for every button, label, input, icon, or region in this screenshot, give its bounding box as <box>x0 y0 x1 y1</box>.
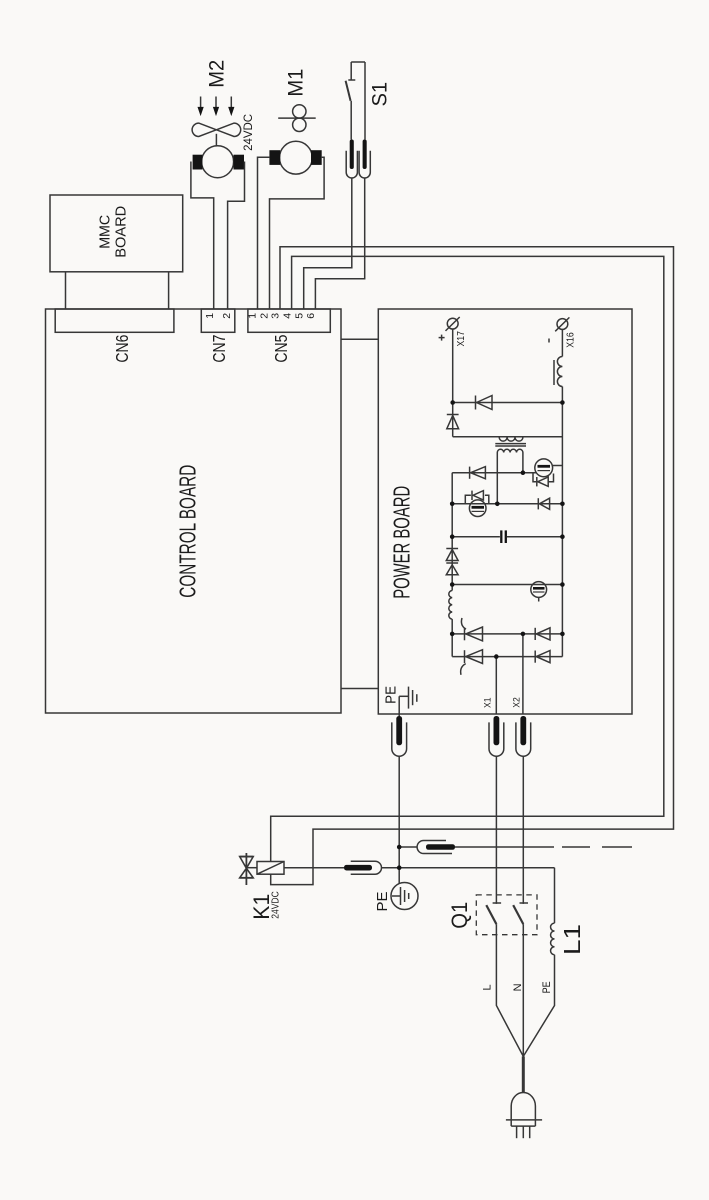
wire transformer primary legs <box>496 453 498 504</box>
wire mid rail <box>452 503 562 505</box>
transistor Q3 <box>531 582 547 598</box>
wire SCR rail <box>452 633 562 635</box>
diode D8 <box>534 651 536 663</box>
power board <box>378 309 632 714</box>
terminal pin X1 <box>494 716 500 745</box>
svg-text:M2: M2 <box>205 60 229 88</box>
connector CN5 <box>248 309 330 332</box>
svg-text:S1: S1 <box>367 82 391 107</box>
wire MMC to CN6 (2 legs) <box>65 272 67 309</box>
svg-text:MMC: MMC <box>96 215 113 249</box>
svg-text:POWER BOARD: POWER BOARD <box>388 486 414 599</box>
wire CN5 pin4 to K1 (upper) <box>271 256 664 861</box>
Q1 pole 2 <box>520 902 529 904</box>
terminal X16 <box>557 319 568 330</box>
diode D-q1 (parallel) <box>536 477 538 486</box>
junction node 1 (power board) <box>450 400 455 405</box>
junction node 4 (power board) <box>450 502 455 507</box>
svg-text:24VDC: 24VDC <box>243 114 255 151</box>
svg-text:CN7: CN7 <box>209 335 229 363</box>
faston connector (K1 wire) <box>344 865 372 871</box>
junction node 9 (power board) <box>450 582 455 587</box>
svg-text:X1: X1 <box>482 697 493 708</box>
junction node 2 (power board) <box>560 400 565 405</box>
control board <box>46 309 342 713</box>
wire CN5 pin3 to K1 (lower) <box>271 247 674 885</box>
svg-text:CN6: CN6 <box>112 335 132 363</box>
junction node 13 (power board) <box>560 632 565 637</box>
wire faston to L1 drop <box>382 867 555 869</box>
svg-text:M1: M1 <box>284 69 308 97</box>
transformer T1 <box>499 437 523 441</box>
junction node 7 (power board) <box>450 534 455 539</box>
inductor (X16 filter) <box>561 329 563 356</box>
svg-text:PE: PE <box>383 686 400 704</box>
svg-text:4: 4 <box>281 313 293 319</box>
diode D1 (top rail) <box>475 396 477 410</box>
wire control-power link bottom <box>341 688 378 690</box>
svg-text:CONTROL BOARD: CONTROL BOARD <box>174 465 200 598</box>
wire X1 drop <box>495 657 497 714</box>
diode D5 (left rail) <box>446 548 458 550</box>
svg-text:CN5: CN5 <box>271 335 291 363</box>
junction node 5 (power board) <box>495 502 500 507</box>
junction node 11 (power board) <box>450 632 455 637</box>
diode D4 (mid rail right) <box>537 498 539 509</box>
svg-text:L1: L1 <box>559 924 585 955</box>
faston connector (dashed lead) <box>399 846 417 848</box>
svg-text:L: L <box>481 984 493 990</box>
MMC board <box>50 195 183 272</box>
diode D2 (vertical under X17) <box>452 403 454 437</box>
svg-text:3: 3 <box>270 313 282 319</box>
wire bridge top rail <box>452 472 536 474</box>
diode D6 (left rail) <box>446 562 458 564</box>
svg-text:1: 1 <box>204 313 216 319</box>
breaker Q1 <box>476 895 537 935</box>
wire bottom rail <box>452 656 562 658</box>
inductor L1 <box>554 868 556 923</box>
thyristor SCR1 <box>464 628 466 641</box>
motor M2 <box>202 146 234 178</box>
inductor L (left rail) <box>449 591 452 620</box>
solenoid valve symbol <box>245 853 247 885</box>
wire top rail <box>453 402 563 404</box>
wire left rail <box>451 473 453 591</box>
junction node PE/lead <box>397 845 402 850</box>
terminal pin PE <box>396 716 402 745</box>
connector CN7 <box>201 309 235 332</box>
junction node 6 (power board) <box>560 502 565 507</box>
svg-text:24VDC: 24VDC <box>270 891 281 919</box>
Q1 pole 1 <box>493 902 502 904</box>
wire right rail <box>561 403 563 657</box>
motor M1 <box>280 141 313 174</box>
relay K1 <box>257 862 284 875</box>
wire control-power link top <box>341 338 378 340</box>
junction node 3 (power board) <box>521 470 526 475</box>
svg-text:X2: X2 <box>511 697 522 708</box>
svg-text:2: 2 <box>221 313 233 319</box>
wire + dashed lead <box>455 846 554 848</box>
diode D-q2 (parallel) <box>471 491 473 500</box>
wire S1 left to CN5 pin5 <box>304 178 352 309</box>
wire L <box>496 924 523 1056</box>
transistor Q1 (top right) <box>535 459 553 477</box>
wire capacitor rail <box>452 536 500 538</box>
svg-text:N: N <box>512 983 524 991</box>
diode D3 <box>469 467 471 479</box>
wire PE <box>523 955 554 1057</box>
wire S1 right to CN5 pin6 <box>315 178 364 309</box>
wire N <box>522 924 524 1056</box>
airflow arrows <box>200 97 202 109</box>
svg-text:Q1: Q1 <box>447 902 472 929</box>
svg-text:5: 5 <box>293 313 305 319</box>
wire X2 down <box>522 756 524 904</box>
svg-text:X16: X16 <box>565 332 577 348</box>
svg-text:6: 6 <box>305 313 317 319</box>
wire M1 to CN5 pin2 <box>270 157 325 309</box>
connector CN6 <box>55 309 174 332</box>
junction node 12 (power board) <box>521 632 526 637</box>
svg-text:BOARD: BOARD <box>113 206 130 258</box>
junction node 8 (power board) <box>560 534 565 539</box>
thyristor SCR2 <box>464 650 466 663</box>
pump symbol M1 <box>293 105 306 118</box>
wire X2 drop <box>522 634 524 714</box>
wire PE down <box>398 756 400 883</box>
earth symbol PE <box>391 883 418 910</box>
terminal pin X2 <box>520 716 526 745</box>
transistor Q2 (mid left) <box>469 500 486 517</box>
junction node 10 (power board) <box>560 582 565 587</box>
S1 terminal blades <box>350 140 354 170</box>
fan blades M2 <box>215 134 217 146</box>
wire M2 to CN7 <box>191 162 214 310</box>
wire M1 to CN5 pin1 <box>258 157 270 309</box>
power plug <box>522 1056 525 1092</box>
svg-text:PE: PE <box>541 981 553 993</box>
terminal X17 <box>447 318 458 329</box>
capacitor C1 <box>500 530 502 543</box>
wire lower rail <box>452 584 562 586</box>
svg-text:X17: X17 <box>455 331 467 347</box>
junction node 14 (power board) <box>494 654 499 659</box>
wire secondary rail <box>453 436 563 438</box>
junction node PE/K1 wire <box>397 865 402 870</box>
wire K1 to faston <box>284 867 344 869</box>
diode D7 <box>534 628 536 640</box>
svg-text:1: 1 <box>246 313 258 319</box>
wire X1 down <box>495 756 497 904</box>
svg-text:PE: PE <box>374 892 391 912</box>
